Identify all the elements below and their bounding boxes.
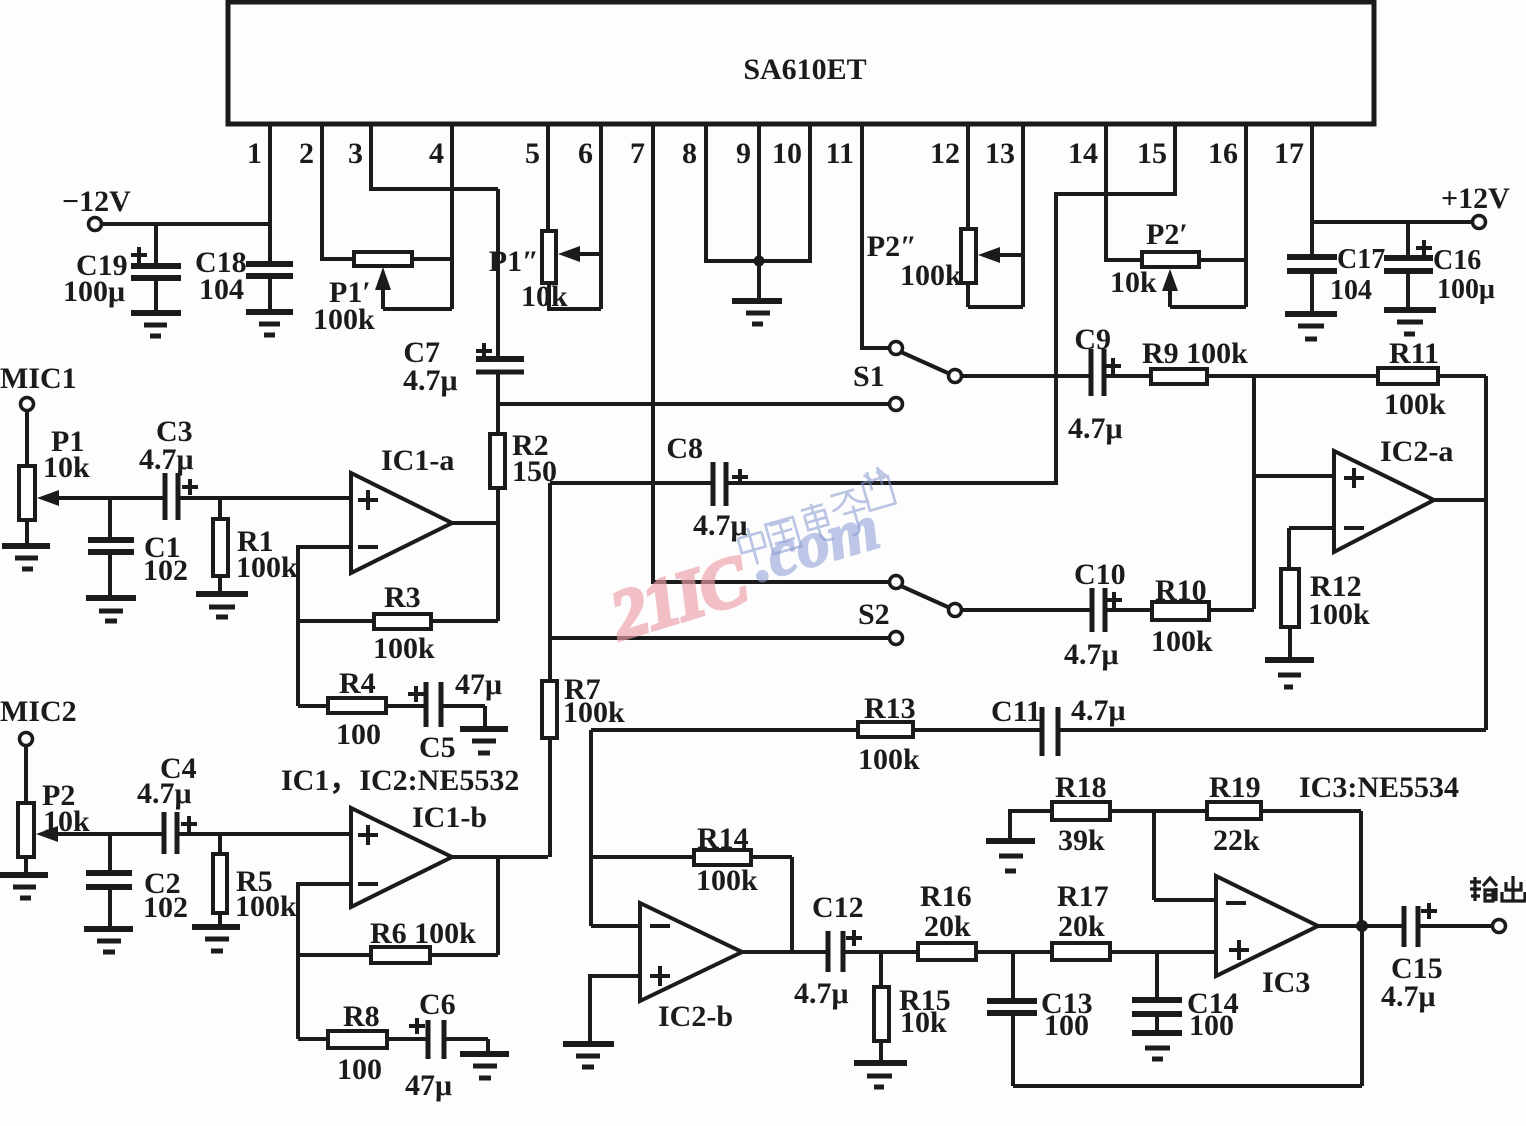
svg-text:C16: C16	[1433, 245, 1481, 276]
op-amp IC2-b	[640, 903, 742, 1033]
svg-text:IC1，IC2:NE5532: IC1，IC2:NE5532	[281, 764, 519, 797]
svg-text:10: 10	[772, 137, 802, 170]
svg-text:100k: 100k	[1151, 625, 1213, 658]
resistor R3 100k	[298, 581, 498, 665]
svg-text:C10: C10	[1074, 558, 1126, 591]
wire R11 feedback vertical	[1484, 376, 1488, 730]
ground C6	[460, 1054, 509, 1078]
junction pin9 node	[754, 256, 765, 267]
svg-text:47μ: 47μ	[455, 668, 502, 701]
svg-text:10k: 10k	[1110, 266, 1157, 299]
svg-text:11: 11	[826, 137, 854, 170]
wire IC2-a noninverting input	[1254, 376, 1334, 609]
capacitor C17 104	[1287, 222, 1385, 314]
capacitor C8 4.7u	[550, 432, 1056, 542]
resistor R5 100k	[213, 834, 297, 927]
capacitor C15 4.7u	[1381, 903, 1492, 1013]
svg-text:+12V: +12V	[1441, 182, 1510, 215]
svg-text:R4: R4	[339, 667, 376, 700]
pin 5 lead	[525, 124, 548, 231]
svg-text:4: 4	[429, 137, 444, 170]
svg-text:12: 12	[930, 137, 960, 170]
resistor R2 150	[490, 429, 557, 523]
ground C1	[86, 598, 136, 621]
resistor R19 22k	[1207, 771, 1361, 857]
ground C2	[84, 929, 133, 952]
svg-text:100: 100	[336, 718, 381, 751]
junction IC3 output node	[1356, 920, 1368, 932]
resistor R11 100k	[1378, 337, 1486, 421]
capacitor C6 47u	[405, 988, 488, 1102]
svg-text:3: 3	[348, 137, 363, 170]
svg-text:4.7μ: 4.7μ	[1068, 412, 1123, 445]
svg-text:SA610ET: SA610ET	[743, 53, 866, 86]
wire IC1-b inverting input	[298, 884, 351, 955]
svg-text:100: 100	[1189, 1009, 1234, 1042]
watermark dot com blue	[742, 490, 887, 596]
wire R13 node vertical	[589, 730, 593, 926]
svg-text:S2: S2	[858, 598, 890, 631]
svg-text:10k: 10k	[43, 451, 90, 484]
node MIC1 terminal	[0, 362, 77, 411]
wire IC1-b output	[452, 857, 548, 955]
wire IC3 output	[1318, 924, 1404, 928]
svg-text:C12: C12	[812, 891, 864, 924]
svg-text:R18: R18	[1055, 771, 1107, 804]
svg-text:100k: 100k	[235, 890, 297, 923]
ground R12	[1265, 660, 1314, 687]
resistor R15 10k	[874, 952, 951, 1063]
svg-text:100k: 100k	[858, 743, 920, 776]
wire R3 node down to R4	[296, 621, 300, 706]
svg-text:IC1-a: IC1-a	[381, 444, 454, 477]
svg-text:100μ: 100μ	[63, 275, 125, 308]
resistor R16 20k	[918, 880, 1052, 960]
capacitor C7 4.7u	[403, 189, 524, 434]
resistor R7 100k	[542, 673, 625, 857]
wire MIC2 signal line	[54, 832, 351, 836]
ground P1	[2, 546, 50, 569]
wire IC1-a inverting input	[298, 547, 351, 621]
svg-text:MIC1: MIC1	[0, 362, 77, 395]
capacitor C16 100u	[1384, 222, 1495, 310]
svg-text:100k: 100k	[236, 551, 298, 584]
svg-text:7: 7	[630, 137, 645, 170]
potentiometer P2' 10k	[1110, 218, 1246, 307]
capacitor C19 100u	[63, 224, 181, 313]
switch S1	[853, 342, 962, 411]
svg-text:C17: C17	[1337, 244, 1385, 275]
svg-text:6: 6	[578, 137, 593, 170]
pin 11 lead	[826, 124, 890, 348]
wire IC2-a inverting input	[1289, 528, 1334, 569]
wire C13 bottom loop to IC3 output	[1013, 1084, 1362, 1088]
wire R14 feedback vertical	[790, 857, 794, 952]
svg-text:R14: R14	[697, 822, 749, 855]
svg-text:−12V: −12V	[62, 185, 131, 218]
ground C19	[131, 313, 181, 336]
svg-text:IC1-b: IC1-b	[412, 801, 487, 834]
svg-text:C11: C11	[991, 695, 1041, 728]
svg-text:102: 102	[143, 891, 188, 924]
svg-text:R9 100k: R9 100k	[1142, 337, 1248, 370]
svg-text:100k: 100k	[900, 259, 962, 292]
pin 15 lead	[1056, 124, 1175, 485]
svg-text:104: 104	[1330, 275, 1372, 306]
resistor R13 100k	[591, 692, 1042, 776]
watermark 21IC red	[601, 541, 758, 656]
resistor R6 100k	[298, 917, 498, 963]
svg-text:10k: 10k	[521, 280, 568, 313]
svg-text:100k: 100k	[1308, 598, 1370, 631]
svg-text:104: 104	[199, 273, 244, 306]
op-amp IC1-a	[351, 444, 454, 573]
wire IC2-b noninverting input to ground	[590, 976, 640, 1044]
svg-text:R6 100k: R6 100k	[370, 917, 476, 950]
ground R15	[854, 1063, 907, 1087]
svg-text:4.7μ: 4.7μ	[139, 443, 194, 476]
wire +12V rail	[1312, 220, 1473, 224]
svg-text:R16: R16	[920, 880, 972, 913]
pin 4 lead	[429, 124, 452, 309]
svg-text:C6: C6	[419, 988, 456, 1021]
capacitor C12 4.7u	[794, 891, 918, 1010]
op-amp IC1-b	[281, 764, 519, 907]
capacitor C2 102	[86, 834, 188, 929]
ground C5	[460, 729, 508, 753]
ground R18	[986, 841, 1035, 871]
pin 8 lead	[682, 124, 706, 263]
svg-text:C9: C9	[1074, 323, 1111, 356]
svg-text:22k: 22k	[1213, 824, 1260, 857]
svg-text:150: 150	[512, 455, 557, 488]
node -12V terminal	[62, 185, 131, 231]
svg-text:20k: 20k	[1058, 910, 1105, 943]
potentiometer P2 10k	[18, 745, 90, 875]
svg-text:14: 14	[1068, 137, 1098, 170]
capacitor C10 4.7u	[1064, 558, 1152, 671]
potentiometer P2'' 100k	[867, 229, 1023, 307]
wire R6 node down to R8	[296, 955, 300, 1039]
capacitor C4 4.7u	[137, 752, 197, 854]
op-amp IC3	[1216, 771, 1459, 999]
ground C16	[1384, 310, 1436, 334]
wire C8 node down to R7	[548, 483, 552, 681]
wire S1 pole to C9	[962, 374, 1091, 378]
svg-text:100k: 100k	[1384, 388, 1446, 421]
svg-text:C8: C8	[666, 432, 703, 465]
wire mixer bus to S1	[498, 402, 889, 406]
resistor R1 100k	[213, 498, 298, 594]
node MIC2 terminal	[0, 695, 77, 746]
wire IC3 inverting input	[1154, 811, 1216, 900]
svg-text:17: 17	[1274, 137, 1304, 170]
node +12V terminal	[1441, 182, 1510, 229]
wire IC2-b inverting input	[591, 924, 640, 928]
pin 9 lead	[736, 124, 759, 301]
pin 14 lead	[1068, 124, 1142, 262]
wire IC1-a output	[452, 523, 498, 621]
capacitor C14 100	[1132, 952, 1239, 1042]
svg-text:9: 9	[736, 137, 751, 170]
capacitor C18 104	[195, 246, 293, 312]
svg-text:4.7μ: 4.7μ	[1064, 638, 1119, 671]
capacitor C11 4.7u	[991, 694, 1486, 756]
op-amp IC2-a	[1334, 435, 1453, 552]
svg-text:100k: 100k	[373, 632, 435, 665]
svg-text:IC3: IC3	[1262, 966, 1310, 999]
svg-text:IC2-b: IC2-b	[658, 1000, 733, 1033]
ground R1	[196, 594, 248, 617]
ground IC2-b	[563, 1044, 614, 1067]
svg-text:100k: 100k	[563, 696, 625, 729]
svg-text:15: 15	[1137, 137, 1167, 170]
wire pins 8-9-10 tie	[706, 259, 810, 263]
label output chinese shuchu	[1470, 876, 1525, 901]
svg-text:R11: R11	[1389, 337, 1439, 370]
capacitor C13 100	[987, 952, 1093, 1086]
pin 7 lead	[630, 124, 891, 582]
ground C17	[1285, 314, 1337, 339]
resistor R10 100k	[1151, 574, 1254, 658]
resistor R14 100k	[591, 822, 792, 897]
pin 17 lead	[1274, 124, 1312, 224]
resistor R4 100	[298, 667, 426, 751]
svg-text:R3: R3	[384, 581, 421, 614]
pin 13 lead	[985, 124, 1023, 307]
capacitor C5 47u	[408, 668, 502, 764]
pin 12 lead	[930, 124, 968, 229]
svg-text:100k: 100k	[313, 303, 375, 336]
watermark zhongguo dianziwang blue	[729, 465, 901, 568]
svg-text:100μ: 100μ	[1437, 274, 1495, 305]
potentiometer P1' 100k	[313, 252, 452, 336]
ground C14	[1132, 1033, 1182, 1059]
capacitor C3 4.7u	[139, 415, 198, 520]
resistor R18 39k	[1010, 771, 1207, 857]
svg-text:2: 2	[299, 137, 314, 170]
wire IC2-a output	[1434, 498, 1486, 502]
svg-text:R19: R19	[1209, 771, 1261, 804]
pin 1 lead	[247, 124, 270, 264]
svg-text:16: 16	[1208, 137, 1238, 170]
svg-text:47μ: 47μ	[405, 1069, 452, 1102]
svg-text:R13: R13	[864, 692, 916, 725]
wire S2 pole to C10	[962, 608, 1092, 612]
wire IC2-b output	[742, 950, 828, 954]
svg-text:4.7μ: 4.7μ	[137, 777, 192, 810]
resistor R9 100k	[1142, 337, 1378, 384]
svg-text:8: 8	[682, 137, 697, 170]
resistor R17 20k	[1052, 880, 1216, 960]
svg-text:R17: R17	[1057, 880, 1109, 913]
ground pins 8-10	[732, 301, 782, 324]
ground P2	[0, 875, 48, 898]
svg-text:102: 102	[143, 554, 188, 587]
switch S2	[858, 576, 962, 645]
svg-text:1: 1	[247, 137, 262, 170]
wire R19 to output node	[1359, 811, 1363, 926]
svg-text:100: 100	[1044, 1009, 1089, 1042]
svg-text:5: 5	[525, 137, 540, 170]
potentiometer P1'' 10k	[489, 231, 601, 313]
wire MIC1 signal line	[55, 496, 351, 500]
svg-text:4.7μ: 4.7μ	[1071, 694, 1126, 727]
svg-text:4.7μ: 4.7μ	[794, 977, 849, 1010]
ground R5	[192, 927, 240, 951]
node output terminal	[1493, 920, 1506, 933]
IC U1 SA610ET body	[228, 2, 1374, 124]
svg-text:IC2-a: IC2-a	[1380, 435, 1453, 468]
wire S2 lower throw to R7 node	[550, 636, 889, 640]
svg-text:100k: 100k	[696, 864, 758, 897]
svg-text:4.7μ: 4.7μ	[1381, 980, 1436, 1013]
svg-text:IC3:NE5534: IC3:NE5534	[1299, 771, 1459, 804]
svg-text:R8: R8	[343, 1000, 380, 1033]
capacitor C9 4.7u	[1068, 323, 1151, 445]
svg-text:10k: 10k	[900, 1006, 947, 1039]
svg-text:20k: 20k	[924, 910, 971, 943]
svg-text:P2ʹ: P2ʹ	[1146, 218, 1188, 251]
pin 2 lead	[299, 124, 354, 261]
pin 3 lead	[348, 124, 498, 189]
svg-text:13: 13	[985, 137, 1015, 170]
svg-text:S1: S1	[853, 360, 885, 393]
capacitor C1 102	[88, 498, 188, 598]
wire output node down to C13 loop	[1360, 926, 1364, 1086]
svg-text:C5: C5	[419, 731, 456, 764]
pin 16 lead	[1208, 124, 1246, 307]
pin 6 lead	[578, 124, 601, 309]
potentiometer P1 10k	[19, 410, 90, 546]
wire -12V rail	[102, 222, 270, 226]
pin 10 lead	[772, 124, 810, 263]
ground C18	[246, 312, 293, 335]
resistor R8 100	[298, 1000, 428, 1086]
svg-text:R10: R10	[1155, 574, 1207, 607]
svg-text:MIC2: MIC2	[0, 695, 77, 728]
svg-text:100: 100	[337, 1053, 382, 1086]
svg-text:39k: 39k	[1058, 824, 1105, 857]
svg-text:4.7μ: 4.7μ	[403, 364, 458, 397]
resistor R12 100k	[1281, 569, 1370, 660]
